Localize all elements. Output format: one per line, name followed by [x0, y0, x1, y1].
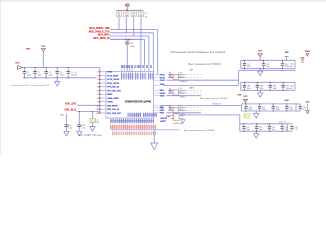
svg-text:VBUS_5V: VBUS_5V	[213, 104, 222, 106]
pin left 12	[100, 112, 106, 114]
svg-text:600R 0.5A: 600R 0.5A	[174, 122, 183, 125]
wire bank loop	[241, 81, 295, 83]
wire bank loop	[240, 123, 288, 125]
svg-text:100n: 100n	[273, 88, 277, 90]
pin left 4	[100, 82, 106, 84]
svg-text:VDDA: VDDA	[305, 50, 311, 53]
wire third row	[167, 95, 202, 97]
op IC U1 body	[106, 72, 154, 119]
svg-text:15p: 15p	[285, 129, 288, 131]
svg-text:100n: 100n	[27, 75, 31, 77]
resistor R4	[133, 9, 135, 12]
wire resistor to net row	[140, 17, 142, 40]
svg-text:VBAT: VBAT	[107, 71, 113, 74]
pin left 2	[100, 75, 106, 77]
wire net row to MCU top pin	[110, 32, 153, 34]
svg-text:12p: 12p	[69, 128, 72, 130]
capacitor CB2	[256, 82, 258, 85]
capacitor C18	[272, 104, 274, 107]
net labels bottom red	[110, 125, 155, 130]
svg-text:VCC: VCC	[41, 46, 46, 48]
wire FB4 out	[179, 114, 240, 116]
pin names bottom inside	[128, 113, 141, 117]
filter CM1	[173, 74, 178, 79]
svg-text:10k: 10k	[118, 15, 121, 17]
svg-text:XTAL_IN_Q: XTAL_IN_Q	[64, 109, 76, 112]
crystal Y1	[92, 112, 94, 119]
pin left 5	[100, 86, 106, 88]
capacitor CB3	[269, 82, 271, 85]
svg-text:100n: 100n	[266, 66, 270, 68]
wire filter out + diff pair marks	[178, 109, 185, 111]
svg-text:Вых. питания на 3.3 VDCDC: Вых. питания на 3.3 VDCDC	[189, 64, 222, 66]
resistor R5	[140, 9, 142, 12]
svg-text:PF0_OSC_IN: PF0_OSC_IN	[107, 87, 119, 89]
ground FB4	[179, 117, 183, 119]
wire branch C9	[66, 114, 68, 125]
svg-text:10k: 10k	[140, 15, 143, 17]
svg-text:NRST: NRST	[161, 121, 167, 123]
svg-text:Осц. 8 MHz ±20 ppm: Осц. 8 MHz ±20 ppm	[78, 135, 102, 137]
svg-text:NRST: NRST	[107, 94, 113, 96]
pin left 7	[100, 93, 106, 95]
wire third row	[167, 79, 239, 81]
wire bank loop	[241, 59, 295, 61]
filter CM2	[173, 90, 178, 95]
wire filter out + diff pair marks	[178, 107, 185, 109]
svg-text:PA11: PA11	[160, 74, 166, 77]
wire xtal_in	[77, 111, 100, 113]
svg-text:VDD: VDD	[26, 48, 31, 50]
wire filter out + diff pair marks	[178, 74, 185, 76]
svg-text:100n: 100n	[276, 109, 280, 111]
capacitor C8 VCAP	[126, 41, 128, 42]
pin numbers bottom	[111, 119, 153, 123]
pins top edge	[121, 65, 123, 71]
svg-text:Конденсаторы 0402 на каждый вы: Конденсаторы 0402 на каждый вывод VDD	[11, 84, 50, 87]
net labels below bus red	[112, 131, 155, 135]
svg-text:3.3V: 3.3V	[285, 100, 290, 102]
svg-text:BOOT0: BOOT0	[161, 118, 168, 120]
pin left 10	[100, 104, 106, 106]
wire net row to MCU top pin	[110, 29, 158, 31]
svg-text:для 1 uF: для 1 uF	[279, 122, 287, 124]
ground C10	[78, 126, 80, 131]
resistor R3	[125, 9, 127, 12]
ground bank	[256, 110, 257, 111]
label yellow opt	[244, 114, 250, 119]
wire bank loop	[242, 103, 296, 105]
svg-text:GND: GND	[160, 96, 165, 98]
pin left 8	[100, 97, 106, 99]
svg-text:MCU_NRST_IN: MCU_NRST_IN	[93, 37, 109, 40]
svg-text:XTAL_OUT: XTAL_OUT	[65, 103, 77, 106]
wire third row	[167, 112, 202, 114]
svg-text:8M: 8M	[96, 122, 99, 124]
svg-text:Вых. адаптера на TX/GND: Вых. адаптера на TX/GND	[200, 98, 228, 100]
pin left 6	[100, 90, 106, 92]
svg-text:10k: 10k	[125, 15, 128, 17]
pins right edge	[154, 74, 160, 76]
wire GND row elbow to bankA	[163, 85, 238, 87]
svg-text:PA13: PA13	[160, 79, 166, 82]
power port VREF right	[301, 58, 304, 61]
svg-text:UART: UART	[189, 87, 195, 90]
capacitor C22	[256, 124, 258, 127]
wire xtal_out	[77, 104, 100, 106]
capacitor C19	[286, 104, 288, 107]
ground MCU bottom	[153, 130, 155, 143]
wire branch C10	[78, 112, 80, 125]
svg-text:PC13_TAMP: PC13_TAMP	[107, 74, 119, 77]
svg-text:VCC: VCC	[258, 51, 263, 53]
svg-text:100n: 100n	[247, 66, 251, 68]
pin names top inside	[122, 73, 153, 80]
svg-text:PA10: PA10	[160, 92, 166, 95]
capacitor C2	[34, 68, 36, 72]
svg-text:10k: 10k	[145, 16, 148, 18]
wire VDD rail left of IC	[99, 68, 101, 113]
ferrite FB4	[171, 114, 174, 116]
svg-text:PF1_OSC_OUT: PF1_OSC_OUT	[107, 90, 121, 92]
capacitor C12	[263, 60, 265, 63]
ground left bank	[57, 77, 58, 78]
wire resistor to net row	[125, 17, 127, 33]
svg-text:4u7: 4u7	[75, 75, 78, 77]
svg-text:STM32F103C8T6 LQFP48: STM32F103C8T6 LQFP48	[125, 100, 152, 103]
svg-text:VCAP: VCAP	[125, 39, 131, 42]
capacitor C13	[282, 60, 284, 63]
pin numbers top	[121, 65, 151, 68]
wire to filter	[168, 92, 173, 94]
svg-text:100n: 100n	[49, 75, 53, 77]
svg-text:15p: 15p	[272, 129, 275, 131]
top window border	[0, 0, 326, 2]
capacitor C21	[243, 124, 245, 127]
svg-text:100n: 100n	[262, 109, 266, 111]
svg-text:PA12: PA12	[160, 76, 166, 79]
pin left 1	[100, 71, 106, 73]
svg-text:4u7: 4u7	[303, 109, 306, 111]
wire to filter	[168, 74, 173, 76]
capacitor CB1	[243, 82, 245, 85]
wire top resistor bus	[117, 9, 143, 11]
svg-text:15p: 15p	[259, 129, 262, 131]
capacitor C1	[24, 68, 26, 72]
svg-text:PD1_OSC_OUT: PD1_OSC_OUT	[107, 113, 122, 115]
svg-text:100n: 100n	[248, 109, 252, 111]
capacitor C9	[64, 124, 68, 126]
filter CM3	[173, 107, 178, 112]
capacitor bulk right	[296, 103, 300, 105]
svg-text:USBLC6: USBLC6	[180, 81, 188, 83]
svg-text:100n: 100n	[247, 88, 251, 90]
svg-text:100n: 100n	[260, 88, 264, 90]
capacitor C10	[77, 124, 81, 126]
svg-text:PC15_OSC32: PC15_OSC32	[107, 83, 120, 85]
wire left bank top bus	[22, 67, 100, 69]
svg-text:VCC: VCC	[15, 62, 20, 64]
pin left 9	[100, 101, 106, 103]
capacitor C16	[245, 104, 247, 107]
svg-text:Обозначения цепей приведены дл: Обозначения цепей приведены для примера	[171, 51, 226, 54]
wire to filter	[168, 107, 173, 109]
svg-text:Для переходника на TX/GND: Для переходника на TX/GND	[184, 130, 215, 132]
svg-text:4u7: 4u7	[290, 66, 293, 68]
svg-text:PD0_OSC_IN: PD0_OSC_IN	[107, 109, 119, 111]
svg-text:12p: 12p	[82, 128, 85, 130]
left window border	[0, 0, 1, 155]
wire extra vertical	[140, 39, 142, 65]
wire net row to MCU top pin	[110, 35, 149, 37]
wire resistor to net row	[133, 17, 135, 36]
wire VCAP to pin	[126, 44, 128, 65]
svg-text:100n: 100n	[130, 46, 134, 48]
capacitor CB4	[282, 82, 284, 85]
wire bottom gnd bus	[111, 129, 180, 131]
svg-text:VSSA_VREF: VSSA_VREF	[107, 97, 119, 100]
ground C9	[66, 126, 68, 131]
capacitor C3	[45, 68, 47, 72]
wire left bank bottom bus	[23, 77, 97, 79]
svg-text:PA0_WKUP: PA0_WKUP	[107, 104, 118, 107]
wire net row to MCU top pin	[110, 38, 145, 40]
capacitor bulk right	[288, 123, 292, 125]
svg-text:100n: 100n	[289, 109, 293, 111]
wire to filter	[168, 77, 173, 79]
svg-text:4u7: 4u7	[290, 88, 293, 90]
wire filter out + diff pair marks	[178, 92, 185, 94]
capacitor C23	[268, 124, 270, 127]
wire to filter	[168, 109, 173, 111]
wire to filter	[168, 89, 173, 91]
capacitor C17	[259, 104, 261, 107]
ground Y1	[92, 123, 94, 127]
svg-text:100n: 100n	[38, 75, 42, 77]
wire filter out + diff pair marks	[178, 77, 185, 79]
svg-text:VCC: VCC	[243, 96, 248, 98]
pin left 11	[100, 108, 106, 110]
ground bank	[260, 68, 261, 69]
svg-text:VDDA: VDDA	[107, 101, 113, 104]
svg-text:PC14_OSC32: PC14_OSC32	[107, 78, 120, 81]
resistor R2	[118, 9, 120, 12]
capacitor C4	[56, 68, 58, 72]
svg-text:15p: 15p	[246, 129, 249, 131]
svg-text:100n: 100n	[285, 66, 289, 68]
svg-text:100n: 100n	[60, 75, 64, 77]
pins bottom edge	[110, 118, 112, 122]
capacitor C5	[67, 68, 69, 72]
ground bank	[256, 131, 257, 132]
ground bank	[260, 90, 261, 91]
wire filter out + diff pair marks	[178, 89, 185, 91]
svg-text:100n: 100n	[286, 88, 290, 90]
capacitor C24	[281, 124, 283, 127]
wire block3 out to bank3	[239, 115, 241, 124]
capacitor C11	[243, 60, 245, 63]
pin left 3	[100, 78, 106, 80]
wire resistor to net row	[118, 17, 120, 30]
svg-text:10k: 10k	[132, 15, 135, 17]
